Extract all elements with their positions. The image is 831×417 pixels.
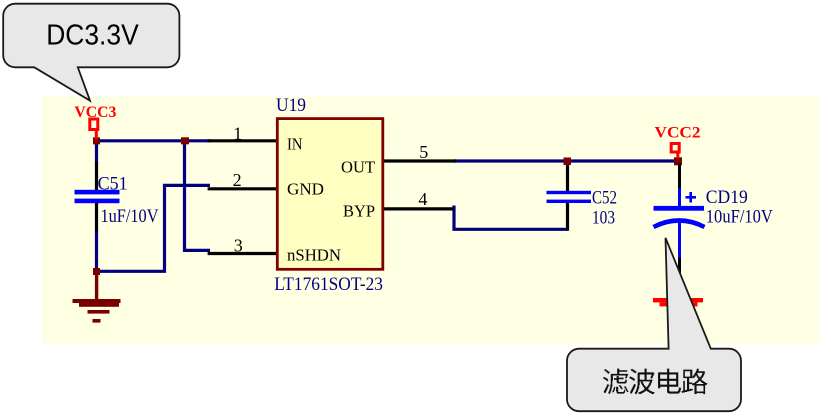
wire VCC3 node to pin1 (horizontal) — [95, 139, 210, 142]
callout balloon DC3.3V — [3, 4, 179, 101]
wire junction B down to pin3 level — [185, 141, 211, 251]
pin 5 — [383, 159, 456, 162]
svg-text:nSHDN: nSHDN — [287, 246, 341, 265]
pin 2 — [208, 187, 278, 190]
callout text filter-circuit (CJK drawn as paths) — [603, 369, 707, 395]
wire ground node right and up to pin2 (GND net) — [97, 185, 211, 271]
ground symbol (left, maroon) — [73, 274, 121, 323]
capacitor CD19 plus polarity mark — [686, 192, 697, 203]
svg-text:C52: C52 — [592, 188, 617, 209]
svg-text:5: 5 — [419, 142, 428, 162]
svg-text:CD19: CD19 — [706, 187, 748, 208]
svg-text:OUT: OUT — [341, 158, 376, 177]
schematic sheet background — [42, 97, 819, 344]
CJK char dian (electric) — [658, 369, 681, 394]
svg-text:2: 2 — [233, 170, 242, 190]
svg-text:10uF/10V: 10uF/10V — [706, 207, 773, 228]
svg-text:1: 1 — [233, 123, 242, 143]
power port VCC2 symbol — [671, 144, 679, 159]
pin 1 — [208, 139, 278, 142]
capacitor C52 bottom pin — [566, 203, 569, 231]
capacitor CD19 bottom lead — [678, 222, 681, 258]
capacitor C52 plates — [547, 191, 592, 203]
svg-text:103: 103 — [592, 208, 615, 229]
svg-text:C51: C51 — [98, 174, 128, 195]
capacitor C51 bottom pin — [95, 203, 98, 231]
op-amp regulator U1 body (U19) — [277, 119, 383, 270]
ground symbol (right, red, behind callout tail) — [653, 298, 703, 322]
power port VCC3 symbol — [90, 119, 98, 139]
CJK char bo (wave) — [629, 369, 655, 395]
capacitor CD19 top lead — [678, 188, 681, 207]
CJK char lu (circuit) — [682, 369, 708, 395]
capacitor CD19 top pin — [678, 163, 681, 189]
junction node D (C52 top) — [564, 158, 572, 166]
pin 3 — [208, 252, 278, 255]
capacitor CD19 bottom pin — [678, 258, 681, 297]
capacitor C52 top pin — [566, 162, 569, 192]
junction node A (VCC3) — [93, 137, 100, 144]
svg-text:GND: GND — [287, 180, 324, 199]
wire C51 bottom to ground node — [95, 230, 98, 272]
CJK char lv (filter) — [603, 369, 628, 395]
svg-text:LT1761SOT-23: LT1761SOT-23 — [274, 274, 383, 295]
capacitor CD19 flat plate — [654, 206, 705, 211]
callout balloon filter circuit (tail) — [567, 238, 741, 411]
svg-text:IN: IN — [287, 135, 303, 154]
junction node C (C51 bottom) — [93, 268, 100, 275]
svg-text:BYP: BYP — [343, 202, 375, 221]
svg-text:3: 3 — [234, 236, 243, 256]
svg-text:1uF/10V: 1uF/10V — [101, 206, 159, 227]
pin 4 — [383, 207, 454, 210]
capacitor C51 plates — [75, 190, 120, 203]
junction node B — [181, 137, 189, 144]
wire OUT pin5 to VCC2 node — [454, 159, 681, 162]
svg-text:VCC2: VCC2 — [655, 125, 701, 142]
svg-text:DC3.3V: DC3.3V — [46, 20, 139, 52]
wire BYP pin4 corner to C52 bottom — [454, 206, 569, 230]
capacitor C51 top pin — [95, 162, 98, 190]
svg-text:4: 4 — [418, 189, 427, 209]
capacitor CD19 curved plate — [654, 221, 705, 228]
wire VCC3 node down to C51 — [95, 141, 98, 163]
svg-text:U19: U19 — [276, 95, 306, 116]
junction node E (VCC2) — [674, 157, 682, 165]
